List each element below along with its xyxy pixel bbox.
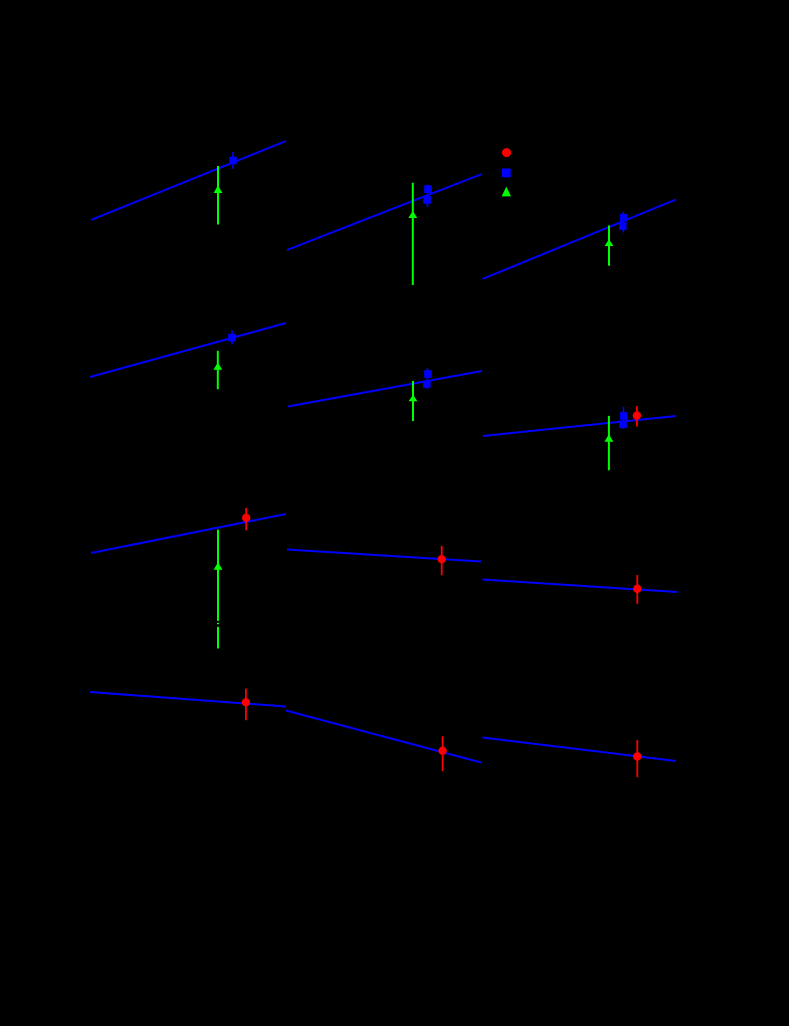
green limit arrow r1c2 line <box>412 183 414 285</box>
legend red circle <box>502 148 511 157</box>
fit line panel r4c1 <box>90 692 286 707</box>
green limit arrow r1c3 line <box>608 225 610 265</box>
green limit arrow r2c2 head <box>409 395 418 402</box>
blue point r1c2 upper square <box>424 185 432 193</box>
fit line panel r4c3 <box>483 738 677 762</box>
red point r3c3 circle <box>633 585 641 593</box>
green limit arrow r2c1 head <box>213 363 222 370</box>
legend green triangle <box>502 187 511 197</box>
blue point r2c2 lower square <box>423 380 431 388</box>
fit line panel r2c3 <box>483 416 676 436</box>
blue point r1c3 lower square <box>619 222 627 230</box>
fit line panel r3c2 <box>287 550 481 562</box>
red point r3c3 errorbar <box>636 575 638 604</box>
blue points r2c2 errorbar <box>426 368 428 389</box>
blue point r2c2 upper square <box>424 370 432 378</box>
blue point r1c1 square <box>229 157 237 165</box>
fit line panel r1c2 <box>287 174 482 250</box>
fit line panel r3c3 <box>483 580 678 593</box>
green limit arrow r1c2 head <box>408 211 417 218</box>
fit line panel r2c1 <box>90 323 286 377</box>
axis-crossing gap 1 on r3c1 arrow <box>216 621 220 623</box>
axis-crossing gap 2 on r3c1 arrow <box>216 624 220 627</box>
blue point r1c1 errorbar <box>232 152 234 169</box>
red point r4c2 circle <box>438 747 446 755</box>
fit line panel r4c2 <box>286 711 481 763</box>
blue point r2c1 square <box>228 334 236 342</box>
fit line panel r1c3 <box>483 200 677 280</box>
fit line panel r3c1 <box>91 514 286 553</box>
red point r3c1 errorbar <box>245 508 247 530</box>
green limit arrow r1c1 head <box>214 185 223 193</box>
blue point r1c2 lower square <box>423 196 431 204</box>
blue point r2c3 upper square <box>620 412 628 420</box>
green limit arrow r2c3 line <box>608 416 610 470</box>
red point r4c2 errorbar <box>442 736 444 771</box>
red point r4c1 circle <box>242 698 250 706</box>
red point r3c2 circle <box>438 555 446 563</box>
red point r2c3 circle <box>633 411 641 419</box>
green limit arrow r2c1 line <box>217 351 219 389</box>
green limit arrow r3c1 line <box>217 530 219 649</box>
green limit arrow r1c3 head <box>605 239 614 246</box>
red point r3c1 circle <box>242 514 250 522</box>
blue points r2c3 errorbar <box>622 407 624 429</box>
fit line panel r2c2 <box>288 371 482 407</box>
red point r4c1 errorbar <box>245 689 247 721</box>
fit line panel r1c1 <box>91 141 286 220</box>
green limit arrow r2c3 head <box>605 434 614 442</box>
red point r4c3 circle <box>633 752 641 760</box>
blue point r2c1 errorbar <box>231 331 233 345</box>
green limit arrow r2c2 line <box>412 381 414 421</box>
blue point r2c3 lower square <box>619 420 627 428</box>
legend blue square <box>502 169 511 178</box>
red point r3c2 errorbar <box>441 546 443 575</box>
blue point r1c3 upper square <box>620 214 628 222</box>
red point r2c3 errorbar <box>636 406 638 427</box>
green limit arrow r1c1 line <box>217 166 219 225</box>
blue points r1c3 errorbar <box>622 212 624 233</box>
blue points r1c2 errorbar <box>427 185 429 208</box>
red point r4c3 errorbar <box>636 740 638 777</box>
green limit arrow r3c1 head <box>214 562 223 570</box>
